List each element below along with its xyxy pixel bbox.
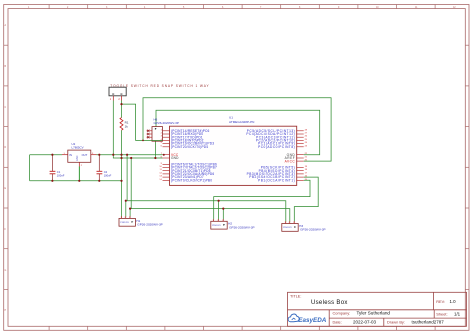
connector H1 [119, 216, 163, 226]
svg-text:GND: GND [171, 156, 179, 160]
svg-text:AVCC: AVCC [285, 159, 296, 163]
wire GND bottom rail [30, 180, 122, 182]
svg-text:EasyEDA: EasyEDA [298, 317, 326, 324]
wire switch pin1 to rail2 [113, 101, 162, 159]
resistor R1 [120, 118, 129, 131]
svg-text:1/1: 1/1 [454, 312, 461, 317]
capacitor C2 [97, 155, 112, 181]
svg-text:1k: 1k [125, 125, 129, 129]
svg-text:GP26-2020WV-3P: GP26-2020WV-3P [137, 223, 162, 227]
svg-text:Sheet:: Sheet: [436, 311, 447, 316]
svg-text:G: G [5, 270, 7, 272]
svg-text:Drawn By:: Drawn By: [387, 319, 405, 324]
svg-text:REV:: REV: [436, 300, 445, 304]
wire rail A top (AVCC net) [143, 98, 331, 161]
junction dots [51, 103, 224, 210]
svg-text:GND: GND [76, 155, 79, 161]
svg-text:100nF: 100nF [57, 173, 65, 177]
svg-text:IN: IN [69, 153, 72, 157]
svg-text:OUT: OUT [82, 153, 88, 157]
wire VCC rail from regulator to MCU [30, 98, 332, 222]
svg-text:L7805CV: L7805CV [72, 146, 84, 150]
wire H6 bottom drop [154, 141, 156, 158]
svg-text:GP26-2020WV-3P: GP26-2020WV-3P [229, 226, 254, 230]
svg-text:(PCINT0/CLKO/ICP1)PB0: (PCINT0/CLKO/ICP1)PB0 [171, 178, 212, 182]
wire PB2 to H3 pin3 [294, 177, 318, 222]
svg-text:P1N1/2/3: P1N1/2/3 [120, 222, 129, 224]
easyeda logo [288, 314, 327, 324]
svg-text:C1: C1 [57, 170, 61, 174]
connector H2 [211, 219, 255, 229]
svg-text:Company:: Company: [333, 311, 351, 316]
svg-text:(PCINT20/XCK/T0)PD4: (PCINT20/XCK/T0)PD4 [171, 145, 208, 149]
wire GND distribution rail [131, 158, 290, 222]
svg-text:ATMEGA328P-PN: ATMEGA328P-PN [229, 120, 254, 124]
svg-text:100nF: 100nF [104, 173, 112, 177]
svg-text:1.0: 1.0 [450, 299, 457, 304]
svg-text:tsutherland2787: tsutherland2787 [412, 320, 445, 325]
svg-text:C2: C2 [104, 170, 108, 174]
svg-text:2022-07-03: 2022-07-03 [353, 320, 377, 325]
wire rail B (GND right net) [156, 110, 320, 154]
wire R1 bottom to H1 pin1 [121, 130, 123, 216]
svg-text:GP26-2020WV-3P: GP26-2020WV-3P [154, 121, 179, 125]
MCU U1 ATMEGA328P-PN [159, 115, 307, 185]
wire switch pin2 jog to H6 [121, 101, 123, 118]
svg-text:PB1(OC1A/PCINT1): PB1(OC1A/PCINT1) [258, 178, 295, 182]
capacitor C1 [50, 155, 65, 181]
wire PB1 to H2 pin1 [214, 180, 310, 219]
switch S1 [109, 87, 126, 101]
svg-text:Useless Box: Useless Box [311, 300, 348, 306]
wire left GND drop [29, 155, 31, 181]
wire VCC distribution rail [127, 155, 286, 222]
svg-text:P1N1/2/3: P1N1/2/3 [212, 225, 221, 227]
regulator U2 L7805CV [62, 142, 97, 181]
svg-text:GP26-2020WV-3P: GP26-2020WV-3P [300, 228, 325, 232]
svg-text:PC0(ADC0/PCINT8): PC0(ADC0/PCINT8) [258, 145, 295, 149]
TITLEBLOCK [288, 292, 467, 326]
svg-text:P1N1/2/3: P1N1/2/3 [283, 227, 292, 229]
svg-text:TITLE:: TITLE: [290, 294, 301, 298]
svg-text:Tyler Sutherland: Tyler Sutherland [357, 311, 391, 316]
connector H3 [282, 221, 326, 231]
svg-text:U1: U1 [229, 115, 233, 119]
svg-text:Date:: Date: [333, 319, 342, 324]
header H6 [147, 117, 179, 141]
